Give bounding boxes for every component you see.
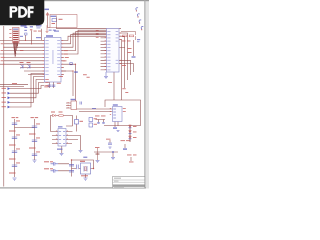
wire U2 left pins (101, 38, 107, 70)
wire long pair to U4 (77, 109, 113, 112)
test point TP2 (137, 14, 139, 18)
resistor pair right of U2 (121, 32, 140, 58)
capacitor near crystal (77, 157, 88, 170)
regulator U5 (52, 19, 57, 22)
ground crystal (84, 178, 88, 180)
page background (0, 0, 149, 198)
IC U3 (56, 126, 68, 146)
capacitor C26 (106, 139, 112, 148)
jumper JP2 (75, 120, 84, 125)
transistor Q2 (27, 62, 31, 69)
wire fan fill (13, 43, 15, 58)
U1 pin name labels (45, 40, 60, 75)
diode chain D3 D4 D5 (129, 125, 137, 139)
connector J1 resistor network (9, 25, 26, 43)
capacitor chain A wire (15, 119, 35, 177)
IC U4 (110, 104, 126, 121)
title block (113, 177, 145, 189)
capacitor right of J2 (80, 102, 81, 105)
test point TP1 (136, 8, 138, 12)
ground bottom right (111, 157, 115, 159)
IC U2 (107, 29, 120, 73)
component on U1 right row (70, 63, 78, 73)
wire U2 bottom down to RF loop (113, 72, 115, 100)
capacitor C21 (44, 161, 74, 166)
wire U1 bottom stubs (50, 82, 54, 88)
U3 loop wire (51, 116, 81, 154)
net label cluster above bus (20, 25, 42, 44)
IC U1 (45, 35, 62, 82)
bottom right misc wires (94, 140, 131, 161)
U1 pin numbers (43, 40, 63, 75)
wire left small (0, 84, 28, 86)
misc blue labels (36, 31, 96, 150)
capacitor chain A parts (9, 117, 20, 180)
oscillator loop wire (58, 160, 94, 178)
power flag above U1 (46, 25, 56, 32)
U2 pin name labels (107, 31, 118, 70)
power flag VCC top (45, 9, 50, 15)
capacitor C22 (44, 168, 74, 172)
wire U1 to J2 vertical (61, 64, 76, 101)
transistor Q1 (20, 50, 24, 69)
diode chain wire (129, 126, 131, 142)
jumper block JP3 (89, 118, 97, 128)
junction node (93, 168, 94, 169)
capacitor stubs below U1 (48, 85, 56, 86)
connector J2 (68, 99, 77, 110)
wire top middle vertical (48, 13, 51, 28)
wire bus U1 right to U2 left (57, 28, 122, 55)
resistor R8 (59, 112, 64, 117)
wire stubs switches (26, 29, 42, 44)
capacitor chain B parts (29, 117, 40, 162)
JP2 wire (76, 116, 78, 132)
capacitor chain bottom right (95, 147, 100, 163)
U2 pin numbers (96, 30, 121, 70)
diode D2 (51, 112, 55, 117)
test point TP4 (141, 26, 143, 30)
wire RF section loop (104, 100, 141, 142)
input port arrows (2, 87, 11, 108)
junction node (71, 159, 72, 160)
misc labels near U1 right (12, 48, 132, 93)
ground below U2 (104, 72, 108, 79)
RF left caps wire (96, 120, 119, 128)
junction node (112, 151, 114, 153)
ground right of U3 (79, 150, 83, 152)
resistor labels bottom right (127, 155, 137, 163)
J2 pins wire (66, 103, 71, 108)
caps below U4 (113, 128, 120, 132)
wire bus left of U1 (0, 40, 45, 74)
wire U2 right side (119, 33, 134, 100)
wire U1 lower right stubs (61, 57, 66, 74)
sub-circuit box top middle (50, 15, 77, 28)
RF section left caps (95, 116, 106, 124)
ground below U3 (60, 153, 64, 155)
PDF badge overlay (0, 0, 44, 25)
crystal Y1 (80, 161, 91, 177)
capacitor C27 (121, 140, 130, 150)
net labels on left rail (1, 43, 5, 64)
wire fan from J1 (13, 43, 17, 58)
wire ports to U1 (10, 74, 45, 108)
power rail wire left (3, 26, 5, 187)
test point TP3 (139, 20, 141, 24)
